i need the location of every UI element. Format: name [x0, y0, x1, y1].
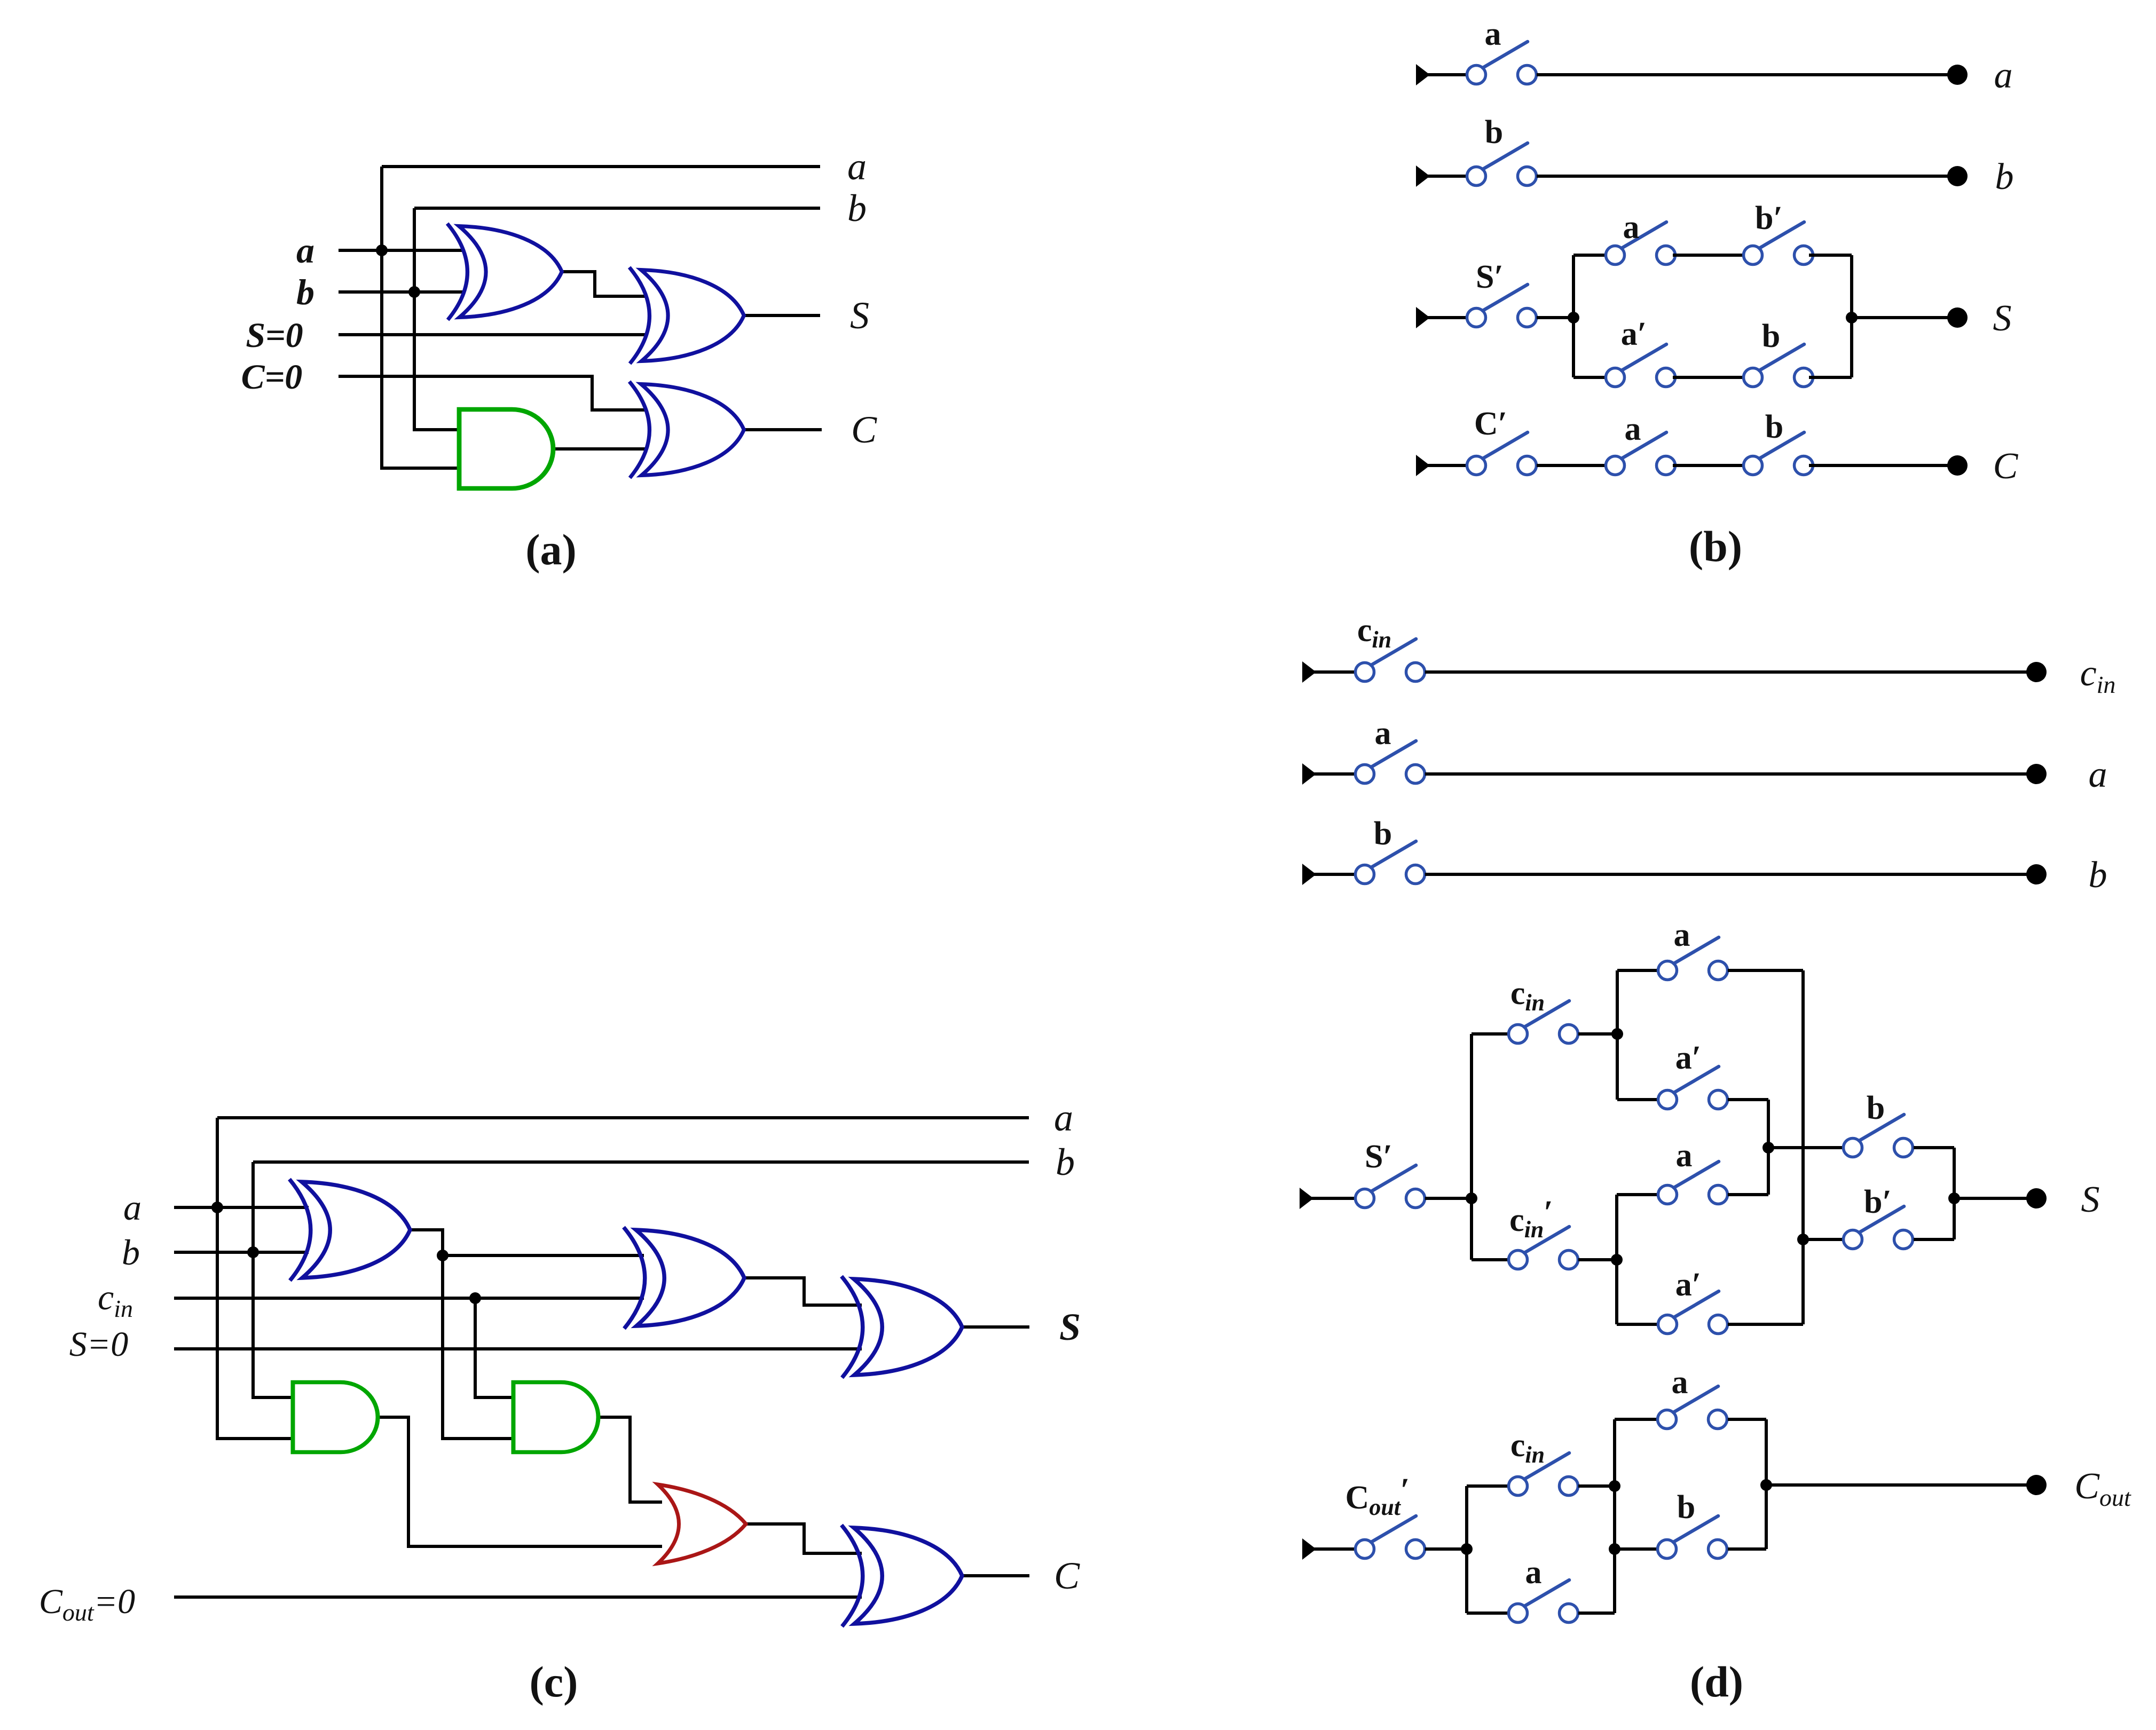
- wire a-mid branch left: [1617, 1193, 1658, 1196]
- wire S' to node p1: [1537, 316, 1573, 319]
- wire q1 vertical: [1470, 1034, 1473, 1260]
- switch a' (S bottom branch): [1606, 344, 1675, 387]
- node q6 junction: [1948, 1192, 1960, 1204]
- svg-text:b: b: [1867, 1090, 1885, 1126]
- node c_in junction: [469, 1292, 481, 1304]
- and U6 (a AND b): [293, 1382, 377, 1452]
- terminal dot row S: [1947, 307, 1968, 328]
- svg-text:b: b: [296, 272, 314, 312]
- row a: input arrow: [1416, 64, 1430, 85]
- and U8 ((a XOR b) AND c_in): [513, 1382, 598, 1452]
- svg-text:a: a: [1672, 1364, 1688, 1401]
- switch a' (bottom, S block): [1658, 1291, 1728, 1334]
- wire b' branch right: [1914, 1238, 1954, 1241]
- wire top feedthrough b: [253, 1160, 1029, 1164]
- wire a top branch right (C block): [1728, 1418, 1766, 1421]
- svg-text:b: b: [1677, 1489, 1695, 1526]
- svg-text:b: b: [2089, 855, 2107, 896]
- wire C_out output: [1766, 1483, 2028, 1487]
- wire output S: [743, 314, 820, 317]
- svg-text:a: a: [1994, 55, 2013, 96]
- svg-text:b: b: [122, 1232, 140, 1273]
- wire a-top branch left: [1617, 969, 1658, 972]
- wire row b to terminal: [1537, 175, 1949, 178]
- wire S block output: [1954, 1197, 2028, 1200]
- switch a (top, C block): [1658, 1386, 1727, 1429]
- wire left vertical of S parallel box: [1572, 255, 1575, 377]
- svg-text:(d): (d): [1690, 1657, 1743, 1706]
- wire vertical node a to AND U6 lower input: [217, 1118, 294, 1439]
- switch a (row a): [1467, 42, 1537, 84]
- xor U2 (S output gate): [630, 267, 744, 364]
- svg-text:S=0: S=0: [69, 1325, 129, 1364]
- wire vertical from node a to AND U3 lower input: [382, 167, 460, 468]
- wire row b left stub (d): [1312, 873, 1355, 876]
- svg-text:(a): (a): [525, 525, 577, 574]
- wire C_out=0 input to XOR U11 lower input: [174, 1595, 862, 1599]
- wire row C seg2: [1673, 464, 1743, 467]
- svg-text:b′: b′: [1755, 200, 1783, 236]
- svg-text:a′: a′: [1675, 1040, 1701, 1076]
- wire c_in branch right to node q2: [1578, 1032, 1617, 1036]
- wire b branch left: [1768, 1146, 1844, 1149]
- terminal dot row c_in: [2026, 662, 2047, 682]
- svg-text:(c): (c): [529, 1657, 578, 1706]
- svg-text:a′: a′: [1675, 1267, 1701, 1303]
- svg-text:a: a: [1623, 209, 1640, 246]
- switch a' (upper, S block): [1658, 1067, 1728, 1109]
- wire node x1 down to AND U8 lower input: [443, 1255, 514, 1439]
- xor U11 (C output gate): [841, 1525, 962, 1626]
- svg-text:C: C: [1993, 446, 2019, 487]
- wire b branch right (C block): [1728, 1547, 1766, 1551]
- wire AND U8 output step to OR U10 upper input: [597, 1417, 662, 1502]
- wire input a: [339, 249, 462, 252]
- node b junction: [247, 1246, 259, 1258]
- row a: input arrow: [1302, 763, 1316, 785]
- C_out block: input arrow: [1302, 1538, 1316, 1560]
- wire a lower branch left (C block): [1467, 1611, 1508, 1615]
- wire XOR U9 output S: [962, 1325, 1029, 1329]
- wire row b to terminal (d): [1425, 873, 2028, 876]
- wire C_out' left stub: [1312, 1547, 1355, 1551]
- svg-text:a: a: [1676, 1137, 1693, 1174]
- switch c_in (S block): [1509, 1001, 1578, 1044]
- wire C_out' to node r1: [1425, 1547, 1467, 1551]
- xor U9 (S output gate): [841, 1276, 962, 1378]
- wire a'-bottom branch left: [1617, 1323, 1658, 1326]
- wire S' to node q1: [1425, 1197, 1472, 1200]
- terminal dot row a: [1947, 65, 1968, 85]
- svg-text:C: C: [851, 408, 877, 451]
- node q3 junction: [1611, 1254, 1623, 1266]
- wire vertical c_in to AND U8 upper input: [475, 1298, 514, 1397]
- wire right vertical (C block): [1765, 1419, 1768, 1549]
- wire XOR U1 output to XOR U2 upper input: [561, 272, 647, 296]
- wire top feedthrough a: [382, 165, 820, 168]
- wire row b left stub: [1426, 175, 1467, 178]
- node r3 junction: [1609, 1543, 1620, 1555]
- node r4 junction: [1760, 1479, 1772, 1491]
- wire c_in branch left: [1472, 1032, 1508, 1036]
- wire input a: [174, 1206, 309, 1209]
- wire row C seg1: [1537, 464, 1606, 467]
- node a junction: [376, 244, 388, 256]
- node r1 junction: [1461, 1543, 1473, 1555]
- svg-text:a: a: [1625, 411, 1641, 447]
- wire XOR U5 output step to node x1: [410, 1230, 443, 1255]
- switch a (S top branch d): [1658, 937, 1728, 980]
- wire c_in' branch right to node q3: [1578, 1258, 1617, 1261]
- switch C' (row C): [1467, 432, 1537, 475]
- switch c_in' (S block): [1509, 1227, 1578, 1269]
- switch b (row b d): [1356, 841, 1425, 884]
- wire c_in input to XOR U7 lower input: [174, 1297, 644, 1300]
- svg-text:b: b: [1995, 156, 2014, 198]
- wire r2 vertical: [1613, 1419, 1616, 1613]
- wire S bottom branch left: [1573, 376, 1606, 379]
- wire right vertical of S parallel box: [1850, 255, 1853, 377]
- row C: input arrow: [1416, 455, 1430, 476]
- row b: input arrow: [1302, 864, 1316, 885]
- svg-text:C=0: C=0: [241, 358, 303, 397]
- switch b (C block): [1658, 1516, 1727, 1559]
- svg-text:C′: C′: [1474, 406, 1507, 442]
- wire right vertical merge: [1953, 1148, 1956, 1239]
- svg-text:(b): (b): [1689, 522, 1742, 571]
- wire q2 vertical: [1616, 970, 1619, 1100]
- svg-text:S′: S′: [1476, 259, 1504, 295]
- wire row C left stub: [1426, 464, 1467, 467]
- switch b' (S block): [1844, 1206, 1913, 1249]
- wire a-top branch right: [1728, 969, 1803, 972]
- svg-text:S: S: [1993, 298, 2012, 339]
- svg-text:S: S: [2081, 1179, 2100, 1220]
- switch c_in (C block): [1509, 1453, 1578, 1496]
- node x1 junction: [437, 1250, 448, 1261]
- wire b' branch left: [1803, 1238, 1844, 1241]
- wire row a left stub: [1426, 73, 1467, 76]
- wire vertical v1 (a' upper to a mid): [1767, 1100, 1770, 1195]
- and U3 (a AND b): [459, 409, 553, 488]
- wire S bottom branch middle: [1673, 376, 1743, 379]
- wire S bottom branch right: [1809, 376, 1852, 379]
- svg-text:a: a: [1054, 1096, 1073, 1139]
- switch b (row C): [1744, 432, 1813, 475]
- node q5 junction: [1797, 1234, 1809, 1245]
- wire top feedthrough b: [414, 207, 820, 210]
- switch c_in (row c_in): [1356, 639, 1425, 682]
- wire input b: [339, 290, 462, 294]
- wire XOR U11 output C: [962, 1574, 1029, 1577]
- wire AND U3 output to XOR U4 lower input: [553, 447, 647, 451]
- node q4 junction: [1762, 1142, 1774, 1154]
- switch a (row C): [1606, 432, 1675, 475]
- svg-text:a′: a′: [1621, 316, 1647, 352]
- wire a'-upper branch right: [1728, 1098, 1768, 1101]
- svg-text:a: a: [296, 230, 314, 271]
- svg-text:b: b: [847, 187, 867, 230]
- svg-text:a: a: [1525, 1554, 1542, 1591]
- wire S' left stub (d): [1309, 1197, 1355, 1200]
- switch b' (S top branch): [1744, 222, 1813, 265]
- node r2 junction: [1609, 1480, 1620, 1492]
- wire row C to terminal: [1809, 464, 1949, 467]
- svg-text:C: C: [1054, 1554, 1080, 1597]
- switch a (row a d): [1356, 741, 1425, 784]
- wire input b: [174, 1251, 309, 1254]
- wire a'-bottom branch right: [1728, 1323, 1803, 1326]
- node a junction: [211, 1202, 223, 1213]
- wire vertical from node b to AND U3 upper input: [414, 208, 460, 430]
- wire vertical v2 (a top to a' bottom): [1801, 970, 1805, 1324]
- wire c_in branch left (C block): [1467, 1484, 1508, 1488]
- svg-text:S: S: [850, 294, 869, 337]
- wire row c_in to terminal: [1425, 670, 2028, 674]
- switch b (S block): [1844, 1115, 1913, 1157]
- svg-text:a: a: [1375, 715, 1391, 752]
- terminal dot S (d): [2026, 1188, 2047, 1208]
- wire a-mid branch right: [1728, 1193, 1768, 1196]
- wire S=0 input to XOR U2: [339, 333, 647, 336]
- wire S top branch middle: [1673, 254, 1743, 257]
- xor U4 (C output gate): [630, 382, 744, 478]
- terminal dot row a (d): [2026, 764, 2047, 784]
- switch C_out': [1356, 1516, 1425, 1559]
- svg-text:b: b: [1374, 816, 1392, 852]
- wire output C: [744, 428, 822, 431]
- switch S' (row S): [1467, 285, 1537, 327]
- wire row a to terminal: [1537, 73, 1949, 76]
- wire S=0 input to XOR U9 lower input: [174, 1347, 862, 1350]
- wire S output: [1852, 316, 1949, 319]
- svg-text:a: a: [847, 145, 867, 188]
- wire vertical node b to AND U6 upper input: [253, 1162, 294, 1397]
- node p2 junction: [1846, 312, 1858, 323]
- svg-text:b: b: [1056, 1141, 1075, 1183]
- wire row S left stub: [1426, 316, 1467, 319]
- switch a (mid, S block): [1658, 1162, 1728, 1204]
- S block: input arrow: [1300, 1188, 1313, 1209]
- wire AND U6 output step to OR U10 lower input: [377, 1417, 662, 1546]
- svg-text:b: b: [1762, 318, 1780, 354]
- terminal dot row b (d): [2026, 864, 2047, 884]
- wire C=0 input stepping to XOR U4: [339, 376, 647, 410]
- xor U7 (second XOR for S): [624, 1227, 744, 1329]
- terminal dot C_out: [2026, 1475, 2047, 1495]
- svg-text:b: b: [1485, 114, 1503, 151]
- wire a top branch left (C block): [1615, 1418, 1658, 1421]
- svg-text:S=0: S=0: [246, 316, 303, 355]
- switch a (lower, C block): [1509, 1580, 1578, 1623]
- wire r1 vertical: [1465, 1486, 1468, 1613]
- wire q3 vertical: [1615, 1195, 1618, 1324]
- wire S top branch right: [1809, 254, 1852, 257]
- xor U5 (a XOR b): [289, 1179, 410, 1281]
- svg-text:b′: b′: [1864, 1184, 1892, 1220]
- wire a lower branch right (C block): [1578, 1611, 1615, 1615]
- node q2 junction: [1611, 1028, 1623, 1040]
- switch b (S bottom branch): [1744, 344, 1813, 387]
- terminal dot row C: [1947, 455, 1968, 476]
- svg-text:S: S: [1059, 1306, 1081, 1348]
- wire c_in' branch left: [1472, 1258, 1508, 1261]
- svg-text:a: a: [1674, 917, 1690, 953]
- switch a (S top branch): [1606, 222, 1675, 265]
- wire b branch right: [1914, 1146, 1954, 1149]
- wire row c_in left stub: [1312, 670, 1355, 674]
- row b: input arrow: [1416, 165, 1430, 187]
- row S: input arrow: [1416, 307, 1430, 328]
- wire b branch left (C block): [1615, 1547, 1658, 1551]
- svg-text:a: a: [2089, 754, 2107, 795]
- wire row a left stub (d): [1312, 772, 1355, 776]
- switch S' (d): [1356, 1165, 1425, 1208]
- switch b (row b): [1467, 143, 1537, 186]
- svg-text:b: b: [1765, 409, 1783, 445]
- wire a'-upper branch left: [1617, 1098, 1658, 1101]
- wire c_in branch right (C block): [1578, 1484, 1615, 1488]
- wire node x1 to XOR U7 upper input: [443, 1254, 644, 1257]
- or U10 (carry OR): [658, 1484, 746, 1563]
- wire S top branch left: [1573, 254, 1606, 257]
- wire OR U10 output step to XOR U11 upper input: [745, 1524, 862, 1553]
- svg-text:a: a: [1485, 16, 1501, 52]
- terminal dot row b: [1947, 166, 1968, 186]
- node b junction: [408, 286, 420, 298]
- xor U1 (a XOR b): [447, 224, 562, 320]
- row c_in: input arrow: [1302, 661, 1316, 683]
- svg-text:S′: S′: [1365, 1139, 1392, 1175]
- node p1 junction: [1568, 312, 1579, 323]
- wire XOR U7 output step to XOR U9 upper input: [744, 1278, 862, 1305]
- wire row a to terminal (d): [1425, 772, 2028, 776]
- node q1 junction: [1466, 1192, 1477, 1204]
- wire top feedthrough a: [217, 1116, 1029, 1119]
- svg-text:a: a: [123, 1187, 141, 1228]
